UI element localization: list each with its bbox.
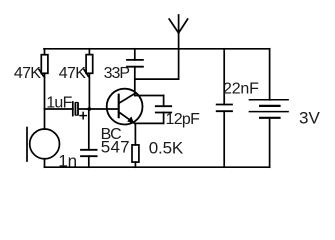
svg-text:547: 547: [101, 137, 130, 156]
resistor 0.5K: [132, 145, 139, 167]
antenna: [169, 15, 187, 49]
capacitor 12pF: [135, 96, 171, 124]
svg-text:47K: 47K: [59, 65, 86, 82]
capacitor 1uF (electrolytic): [73, 102, 87, 119]
svg-text:47K: 47K: [14, 65, 41, 82]
microphone: [27, 109, 60, 167]
resistor 47K (left): [39, 49, 48, 109]
wire: top supply rail: [44, 48, 270, 50]
svg-text:0.5K: 0.5K: [149, 139, 184, 158]
svg-text:22nF: 22nF: [223, 80, 259, 97]
svg-text:12pF: 12pF: [166, 111, 201, 128]
svg-text:33P: 33P: [104, 65, 130, 82]
transistor BC547: [107, 89, 143, 125]
capacitor 33P: [127, 49, 143, 67]
resistor 47K (right): [84, 49, 93, 109]
svg-text:3V: 3V: [299, 109, 320, 128]
wire: emitter node: [135, 123, 164, 144]
wire: 33P bottom to collector: [134, 67, 136, 96]
battery 3V: [249, 49, 288, 167]
capacitor 1n: [81, 111, 97, 168]
wire: antenna to collector node: [135, 49, 179, 79]
junction: base node: [87, 107, 91, 111]
wire: ground/bottom rail: [45, 166, 270, 168]
capacitor 22nF: [217, 49, 232, 167]
wire: base wire: [45, 108, 119, 110]
